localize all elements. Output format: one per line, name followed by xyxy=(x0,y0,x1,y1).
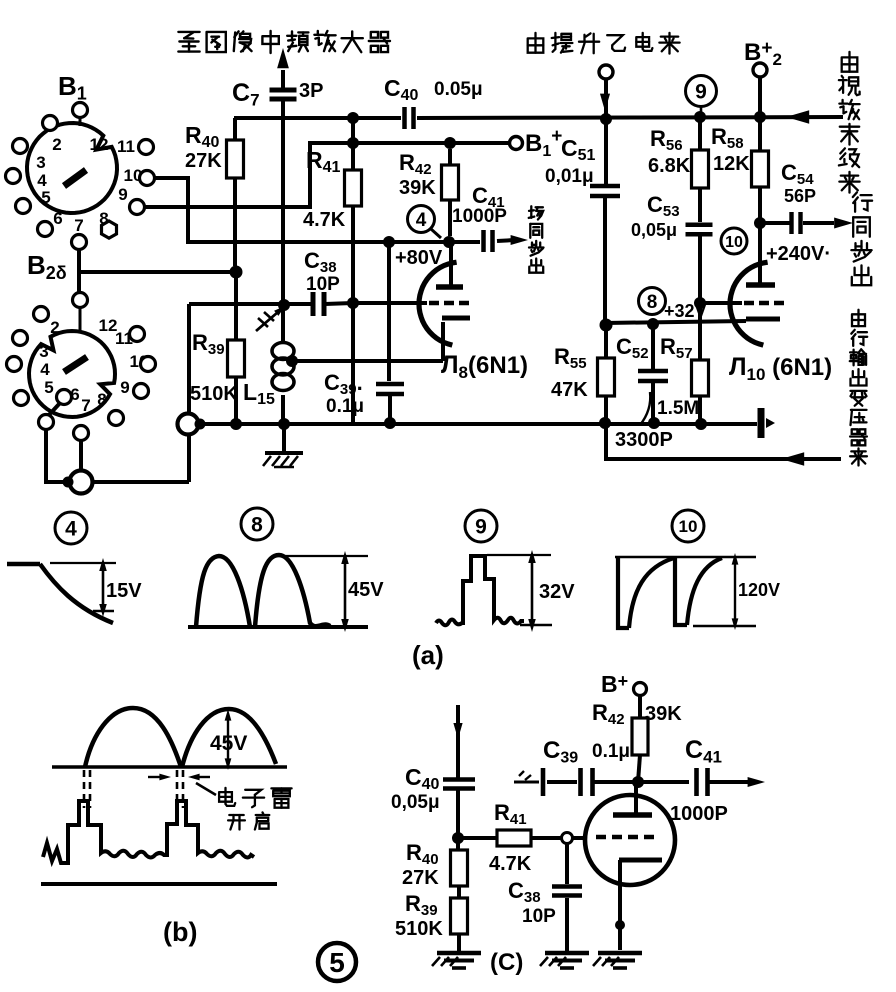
junction L15 tap xyxy=(286,355,298,367)
sine baseline b xyxy=(52,765,287,768)
tube socket B1 body xyxy=(27,123,117,213)
junction xyxy=(648,417,660,429)
svg-text:3P: 3P xyxy=(299,80,323,102)
waveform 10 arrow xyxy=(734,560,736,623)
c resistor R41 xyxy=(497,830,531,846)
tube L8 grid dashes xyxy=(353,301,427,305)
capacitor C39 xyxy=(387,242,391,381)
svg-text:11: 11 xyxy=(117,137,135,156)
svg-text:12: 12 xyxy=(90,135,109,154)
c wire C38 xyxy=(565,843,569,884)
ground near L15 xyxy=(265,451,303,455)
bottom bus wire xyxy=(199,422,757,426)
terminal circle on riser xyxy=(178,414,199,435)
junction xyxy=(452,832,464,844)
svg-text:9: 9 xyxy=(120,378,129,397)
svg-text:510K: 510K xyxy=(190,383,238,405)
tube U-L8 envelope xyxy=(419,262,457,345)
c input tick marks xyxy=(519,771,524,776)
svg-text:120V: 120V xyxy=(738,580,780,600)
wire cathode to L15 tap xyxy=(292,359,443,363)
b gap arrows xyxy=(148,776,160,778)
junction top bus xyxy=(347,112,359,124)
capacitor C54 xyxy=(760,221,790,225)
socket B1 pointer xyxy=(64,170,86,186)
svg-text:510K: 510K xyxy=(395,918,443,940)
svg-text:3300P: 3300P xyxy=(615,429,673,451)
svg-text:15V: 15V xyxy=(106,580,142,602)
waveform 4 curve xyxy=(7,562,40,567)
waveform 8 baseline xyxy=(188,625,368,629)
wire B1 pin to B2 pin1 xyxy=(77,248,81,293)
junction xyxy=(347,137,359,149)
svg-text:56P: 56P xyxy=(784,186,816,206)
svg-text:32V: 32V xyxy=(539,581,575,603)
resistor R42 body xyxy=(448,149,452,165)
svg-text:(a): (a) xyxy=(412,640,444,670)
node circle 9 xyxy=(686,76,717,107)
resistor R40 body xyxy=(233,118,237,140)
junction xyxy=(615,920,625,930)
junction xyxy=(230,418,242,430)
c grid wire + terminal xyxy=(531,836,562,840)
svg-text:4: 4 xyxy=(65,518,77,541)
svg-text:0.1μ: 0.1μ xyxy=(326,396,364,417)
socket B1 pin1 tick xyxy=(79,117,82,126)
svg-text:+80V: +80V xyxy=(395,247,443,269)
c input wire xyxy=(514,781,539,784)
terminal B1+ xyxy=(510,137,523,150)
junction xyxy=(694,297,706,309)
terminal boost B+ xyxy=(599,65,613,79)
capacitor C53 xyxy=(686,223,713,228)
svg-text:7: 7 xyxy=(81,396,90,415)
svg-text:2: 2 xyxy=(52,135,61,154)
wire flyback return xyxy=(606,424,841,459)
c terminal B+ xyxy=(634,683,647,696)
junction xyxy=(647,318,659,330)
node8 wire xyxy=(605,321,746,323)
svg-text:9: 9 xyxy=(695,81,707,104)
label: from boost B+ (Chinese) xyxy=(528,38,544,52)
svg-text:0.1μ: 0.1μ xyxy=(592,741,630,762)
svg-text:5: 5 xyxy=(44,378,53,397)
waveform 8 arrow xyxy=(344,560,347,623)
socket B2 pointer xyxy=(64,357,87,372)
capacitor C38 series xyxy=(311,292,316,316)
junction xyxy=(384,417,396,429)
junction xyxy=(278,418,290,430)
svg-text:9: 9 xyxy=(118,185,127,204)
arrow field sync out xyxy=(511,235,528,245)
tube L8 cathode xyxy=(442,316,470,321)
svg-text:6.8K: 6.8K xyxy=(648,155,691,177)
svg-text:4.7K: 4.7K xyxy=(489,853,532,875)
junction grid node xyxy=(347,297,359,309)
c tube cathode xyxy=(619,858,662,863)
svg-text:27K: 27K xyxy=(402,867,439,889)
resistor R56 xyxy=(698,119,702,150)
junction xyxy=(195,419,206,430)
wire B2 bottom pin stub xyxy=(79,440,83,471)
top bus wire left xyxy=(234,116,401,120)
label from line output transformer (Chinese, vertical) xyxy=(852,314,865,326)
node circle 8 xyxy=(639,288,666,315)
waveform 10 curves xyxy=(618,557,629,628)
c tube plate xyxy=(634,782,638,813)
tube L10 cathode xyxy=(746,317,780,322)
waveform 10 bottom ref xyxy=(693,625,756,627)
waveform 9 arrow xyxy=(531,558,534,624)
resistor R55 xyxy=(604,325,608,358)
capacitor C52 xyxy=(651,324,655,369)
capacitor C51 xyxy=(590,184,620,189)
svg-text:1.5M: 1.5M xyxy=(657,398,699,419)
capacitor C7 xyxy=(281,70,285,88)
svg-text:(C): (C) xyxy=(490,949,523,976)
c wire R41 left xyxy=(458,836,497,840)
inductor L15 coil xyxy=(281,101,285,342)
wire B2-delta horizontal xyxy=(79,270,236,274)
svg-text:39K: 39K xyxy=(399,177,436,199)
wire bottom left to riser xyxy=(93,480,189,484)
node circle 4 xyxy=(408,206,435,233)
resistor R58 xyxy=(752,151,769,187)
resistor R39 body xyxy=(234,278,238,340)
label from video amp (Chinese, vertical) xyxy=(842,57,858,71)
arrow return pointing left xyxy=(781,452,804,465)
svg-text:3: 3 xyxy=(36,153,45,172)
svg-text:0,05μ: 0,05μ xyxy=(391,792,440,813)
svg-text:45V: 45V xyxy=(348,579,384,601)
svg-text:3: 3 xyxy=(39,342,48,361)
resistor R41 body xyxy=(351,118,355,170)
c tube grid xyxy=(596,835,606,840)
c resistor R40 xyxy=(451,850,468,886)
c tube envelope xyxy=(585,795,675,885)
waveform 9 pulse xyxy=(436,556,524,625)
svg-text:4: 4 xyxy=(416,210,427,231)
left riser wire x=189 xyxy=(187,435,191,482)
svg-text:12K: 12K xyxy=(713,153,750,175)
svg-text:9: 9 xyxy=(475,516,487,539)
svg-text:10P: 10P xyxy=(306,274,340,295)
b 45V arrow xyxy=(227,716,229,763)
terminal bar right end xyxy=(758,408,765,438)
waveform 8 humps xyxy=(196,556,250,627)
c resistor R42 xyxy=(638,696,642,718)
svg-text:4: 4 xyxy=(40,360,50,379)
node circle 10 xyxy=(721,228,747,254)
wire from pin10 xyxy=(154,178,480,242)
c out wire xyxy=(708,780,748,784)
junction xyxy=(600,319,613,332)
socket B1 pin 8 hex xyxy=(102,221,117,238)
c resistor R39 xyxy=(451,898,468,934)
waveform 4 arrow xyxy=(102,566,105,609)
wire B2 pin6 diagonal xyxy=(48,403,60,416)
junction xyxy=(230,266,243,279)
svg-text:Л8(6N1): Л8(6N1) xyxy=(441,351,528,382)
label electron tube opens (Chinese) xyxy=(219,792,232,802)
arrow on top bus pointing left xyxy=(786,110,809,123)
svg-text:(b): (b) xyxy=(163,917,197,947)
adjustable core arrow xyxy=(256,312,278,331)
sine humps b xyxy=(85,708,181,767)
c wire mid xyxy=(593,780,689,784)
resistor R57 xyxy=(698,236,702,360)
top bus wire right xyxy=(417,117,843,118)
figure number 5 circle xyxy=(318,943,356,981)
waveform node 9 circle xyxy=(465,510,497,542)
tube L10 plate xyxy=(746,282,775,288)
waveform 9 ref line xyxy=(487,554,551,556)
svg-text:0,05μ: 0,05μ xyxy=(631,220,677,240)
label line sync out (Chinese, vertical) xyxy=(853,192,857,197)
wire from pin9 xyxy=(144,143,510,207)
svg-text:5: 5 xyxy=(41,188,50,207)
svg-text:8: 8 xyxy=(251,514,263,537)
arrow up to IF amp xyxy=(277,48,289,68)
svg-text:1000P: 1000P xyxy=(670,803,728,825)
svg-text:0,01μ: 0,01μ xyxy=(545,166,594,187)
c top arrow down xyxy=(456,705,460,778)
tube U-L10 envelope xyxy=(730,262,768,345)
svg-text:Л10 (6N1): Л10 (6N1) xyxy=(729,353,832,384)
socket B2 pins xyxy=(73,293,88,308)
c ground right xyxy=(598,951,642,955)
terminal B+2 xyxy=(753,63,767,77)
waveform 8 ref line xyxy=(274,555,368,557)
terminal big circle bottom-left xyxy=(70,471,93,494)
waveform node 8 circle xyxy=(241,508,273,540)
socket B1 pins xyxy=(73,103,88,118)
svg-text:8: 8 xyxy=(647,292,658,313)
junction xyxy=(383,236,395,248)
junction xyxy=(278,299,290,311)
svg-text:0.05μ: 0.05μ xyxy=(434,79,483,100)
wire boost down xyxy=(604,79,608,186)
svg-text:10: 10 xyxy=(725,234,743,251)
wire B+2 down xyxy=(758,77,762,150)
waveform 4 ref line xyxy=(50,562,116,564)
tube socket B2 body xyxy=(29,331,115,417)
tube L10 grid dashes xyxy=(700,301,742,305)
waveform 10 top line xyxy=(615,556,756,559)
c ground mid xyxy=(545,951,589,955)
junction xyxy=(600,113,612,125)
waveform node 10 circle xyxy=(672,510,704,542)
waveform 9 bottom ref xyxy=(520,624,552,626)
junction xyxy=(444,137,456,149)
capacitor C40 series xyxy=(402,107,407,129)
svg-text:8: 8 xyxy=(97,390,106,409)
junction xyxy=(63,477,74,488)
svg-text:4.7K: 4.7K xyxy=(303,209,346,231)
arrow line sync out xyxy=(834,218,853,229)
junction xyxy=(632,776,644,788)
svg-text:10P: 10P xyxy=(522,906,556,927)
wire C38 line xyxy=(189,302,312,306)
junction xyxy=(443,236,455,248)
svg-text:1000P: 1000P xyxy=(452,206,507,227)
junction xyxy=(754,217,766,229)
svg-text:6: 6 xyxy=(53,209,62,228)
c ground left xyxy=(437,951,481,955)
svg-text:39K: 39K xyxy=(645,703,682,725)
svg-text:10: 10 xyxy=(679,517,698,536)
junction xyxy=(754,111,766,123)
c capacitor C41 xyxy=(694,768,699,796)
junction xyxy=(695,418,707,430)
svg-text:27K: 27K xyxy=(185,150,222,172)
label: to image IF amplifier (Chinese) xyxy=(178,31,199,33)
waveform node 4 circle xyxy=(55,512,87,544)
junction xyxy=(599,417,611,429)
socket B2 pin1 tick xyxy=(79,308,82,330)
wire C41 out xyxy=(497,240,515,241)
label field sync out (Chinese) xyxy=(530,206,532,218)
junction xyxy=(694,111,706,123)
svg-text:+240V·: +240V· xyxy=(766,243,831,265)
tube L8 plate xyxy=(449,241,453,285)
svg-text:45V: 45V xyxy=(210,732,247,755)
svg-text:5: 5 xyxy=(329,947,345,978)
c capacitor C39 xyxy=(578,768,583,796)
capacitor C41 series xyxy=(481,230,486,252)
svg-text:2: 2 xyxy=(50,318,59,337)
b pulse waveform xyxy=(43,801,254,863)
b dashed verticals xyxy=(83,770,86,808)
b underline xyxy=(41,882,277,886)
b leader line xyxy=(196,783,216,795)
svg-text:47K: 47K xyxy=(551,379,588,401)
c capacitor C40 xyxy=(443,777,475,782)
wire B2 lower-left xyxy=(46,429,70,482)
svg-text:7: 7 xyxy=(74,216,83,235)
